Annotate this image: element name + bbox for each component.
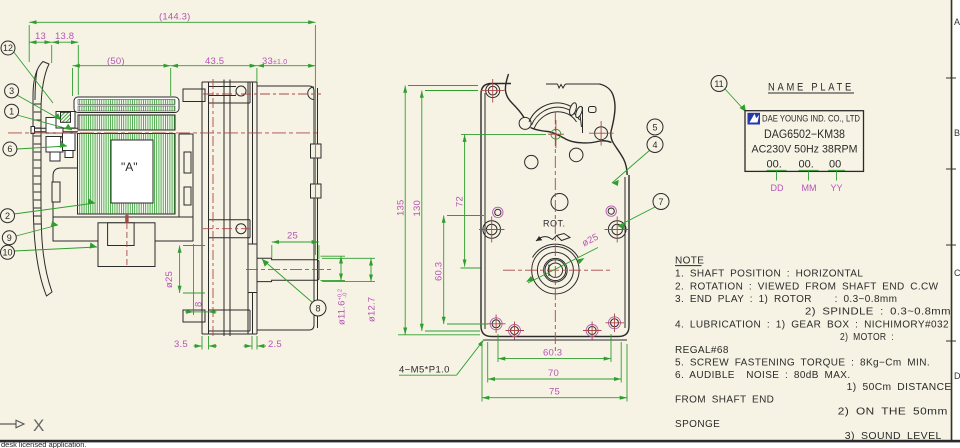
svg-text:75: 75 xyxy=(549,387,560,398)
svg-text:7: 7 xyxy=(658,197,663,207)
svg-text:ø11.6+0.2-0: ø11.6+0.2-0 xyxy=(337,289,349,325)
svg-text:ø12.7: ø12.7 xyxy=(367,297,378,322)
svg-text:12: 12 xyxy=(3,43,13,53)
svg-text:6: 6 xyxy=(7,144,12,154)
svg-text:2: 2 xyxy=(5,211,10,221)
svg-text:60.3: 60.3 xyxy=(543,348,562,359)
svg-text:(144.3): (144.3) xyxy=(159,12,191,23)
svg-text:3) SOUND LEVEL: 3) SOUND LEVEL xyxy=(845,431,942,442)
svg-text:FROM SHAFT END: FROM SHAFT END xyxy=(675,394,774,405)
svg-text:B: B xyxy=(954,128,960,138)
svg-text:3: 3 xyxy=(9,86,14,96)
svg-text:6. AUDIBLE NOISE : 80dB MAX.: 6. AUDIBLE NOISE : 80dB MAX. xyxy=(675,370,851,381)
svg-text:2.5: 2.5 xyxy=(268,339,282,350)
svg-text:AC230V 50Hz 38RPM: AC230V 50Hz 38RPM xyxy=(752,144,858,156)
svg-text:13.8: 13.8 xyxy=(55,31,74,42)
svg-text:25: 25 xyxy=(287,231,298,242)
svg-text:2) MOTOR :: 2) MOTOR : xyxy=(840,332,894,343)
svg-text:REGAL#68: REGAL#68 xyxy=(675,345,729,356)
svg-text:DD: DD xyxy=(771,183,784,193)
svg-text:00.: 00. xyxy=(799,159,814,171)
svg-text:A: A xyxy=(954,17,960,27)
svg-text:5: 5 xyxy=(652,122,657,132)
svg-text:60.3: 60.3 xyxy=(434,262,445,281)
svg-text:9: 9 xyxy=(7,233,12,243)
svg-text:2) ON THE 50mm: 2) ON THE 50mm xyxy=(838,406,948,417)
svg-text:MM: MM xyxy=(802,183,817,193)
svg-text:10: 10 xyxy=(2,248,12,258)
svg-text:DAE YOUNG IND. CO., LTD: DAE YOUNG IND. CO., LTD xyxy=(762,114,860,125)
svg-text:"A": "A" xyxy=(121,160,138,174)
svg-text:2) SPINDLE : 0.3~0.8mm: 2) SPINDLE : 0.3~0.8mm xyxy=(805,306,951,317)
svg-text:8: 8 xyxy=(315,303,320,313)
svg-text:70: 70 xyxy=(548,368,559,379)
svg-text:00.: 00. xyxy=(767,159,782,171)
svg-text:4−M5*P1.0: 4−M5*P1.0 xyxy=(399,365,450,376)
svg-text:1. SHAFT POSITION : HORIZONTAL: 1. SHAFT POSITION : HORIZONTAL xyxy=(675,268,863,279)
svg-text:ø25: ø25 xyxy=(164,271,175,288)
svg-text:D: D xyxy=(954,371,960,381)
svg-text:5. SCREW FASTENING TORQUE : 8K: 5. SCREW FASTENING TORQUE : 8Kg−Cm MIN. xyxy=(675,358,930,369)
svg-text:NOTE: NOTE xyxy=(675,255,704,266)
svg-text:4: 4 xyxy=(652,140,657,150)
svg-text:1) 50Cm DISTANCE: 1) 50Cm DISTANCE xyxy=(847,382,952,393)
svg-text:C: C xyxy=(954,268,960,278)
svg-text:1: 1 xyxy=(9,106,14,116)
svg-text:desk licensed application.: desk licensed application. xyxy=(1,440,86,448)
svg-text:3. END PLAY : 1) ROTOR : 0.: 3. END PLAY : 1) ROTOR : 0.3~0.8mm xyxy=(675,294,897,305)
svg-text:NAME PLATE: NAME PLATE xyxy=(768,82,854,94)
svg-text:(50): (50) xyxy=(107,56,125,67)
svg-text:DAG6502−KM38: DAG6502−KM38 xyxy=(764,129,845,141)
svg-text:3.5: 3.5 xyxy=(174,339,188,350)
svg-text:SPONGE: SPONGE xyxy=(675,419,720,430)
svg-text:13: 13 xyxy=(35,31,46,42)
svg-text:2. ROTATION : VIEWED FROM SHAF: 2. ROTATION : VIEWED FROM SHAFT END C.CW xyxy=(675,281,939,292)
svg-text:72: 72 xyxy=(455,196,466,207)
svg-text:X: X xyxy=(33,416,44,435)
svg-text:4. LUBRICATION : 1) GEAR BOX :: 4. LUBRICATION : 1) GEAR BOX : NICHIMORY… xyxy=(675,319,949,330)
svg-text:ROT.: ROT. xyxy=(543,219,566,229)
svg-text:130: 130 xyxy=(412,200,423,216)
svg-text:11: 11 xyxy=(714,79,723,89)
svg-text:135: 135 xyxy=(396,200,407,216)
svg-text:YY: YY xyxy=(830,183,842,193)
svg-text:43.5: 43.5 xyxy=(205,56,224,67)
svg-text:8: 8 xyxy=(194,302,205,307)
svg-text:00: 00 xyxy=(829,159,841,171)
